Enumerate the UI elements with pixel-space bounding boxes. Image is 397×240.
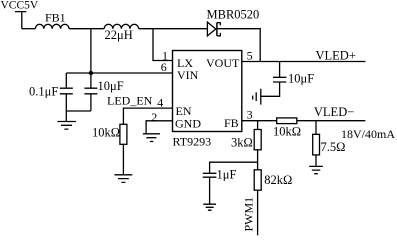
svg-text:VOUT: VOUT xyxy=(206,56,240,70)
svg-text:VLED−: VLED− xyxy=(314,105,354,119)
svg-text:82kΩ: 82kΩ xyxy=(264,173,292,187)
svg-text:PWM1: PWM1 xyxy=(242,197,256,232)
svg-text:RT9293: RT9293 xyxy=(173,135,212,149)
svg-text:MBR0520: MBR0520 xyxy=(207,7,260,21)
svg-text:10μF: 10μF xyxy=(98,79,124,93)
svg-text:GND: GND xyxy=(175,116,201,130)
svg-text:7.5Ω: 7.5Ω xyxy=(321,140,346,154)
svg-text:FB: FB xyxy=(224,116,239,130)
svg-text:6: 6 xyxy=(161,60,167,74)
svg-text:3kΩ: 3kΩ xyxy=(231,136,253,150)
svg-text:0.1μF: 0.1μF xyxy=(29,84,58,98)
svg-text:FB1: FB1 xyxy=(45,10,66,24)
svg-text:22μH: 22μH xyxy=(105,28,133,42)
svg-text:VCC5V: VCC5V xyxy=(1,0,39,11)
svg-text:10kΩ: 10kΩ xyxy=(92,125,120,139)
svg-text:18V/40mA: 18V/40mA xyxy=(341,127,395,141)
svg-text:VLED+: VLED+ xyxy=(316,48,356,62)
svg-text:10kΩ: 10kΩ xyxy=(273,124,301,138)
svg-text:2: 2 xyxy=(151,110,157,124)
svg-text:10μF: 10μF xyxy=(288,72,314,86)
svg-text:3: 3 xyxy=(247,108,253,122)
svg-text:VIN: VIN xyxy=(177,68,199,82)
svg-text:5: 5 xyxy=(247,49,253,63)
svg-text:4: 4 xyxy=(157,95,163,109)
svg-text:1μF: 1μF xyxy=(217,168,237,182)
svg-text:LED_EN: LED_EN xyxy=(107,93,153,107)
